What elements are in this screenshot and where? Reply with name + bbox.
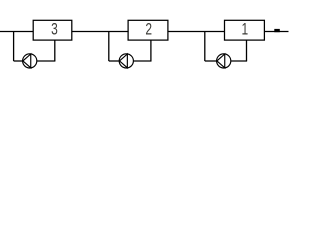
- label 3: [51, 21, 58, 39]
- switch S1: circle with inscribed triangle: [217, 54, 231, 68]
- label 2: [145, 21, 152, 39]
- label 1: [242, 21, 249, 39]
- wire: output line from block 1: [264, 31, 288, 33]
- wire: feedback lower run to switch S1: [205, 60, 217, 62]
- svg-text:3: 3: [51, 21, 58, 39]
- block 1: rectangle: [225, 20, 265, 40]
- wire: link from block 3 to block 2: [72, 31, 129, 33]
- wire: from switch S2 to riser: [133, 60, 151, 62]
- wire: from switch S1 to riser: [231, 60, 247, 62]
- wire: from switch S3 to riser: [37, 60, 56, 62]
- svg-text:1: 1: [242, 21, 249, 39]
- wire: input line from left edge to block 3: [0, 31, 34, 33]
- wire: feedback lower run to switch S3: [14, 60, 23, 62]
- node J2: tap junction before block 2: [108, 32, 110, 62]
- wire: link from block 2 to block 1: [168, 31, 225, 33]
- output terminal: small filled square: [274, 29, 280, 32]
- wire: riser up into bottom of block 2: [150, 40, 152, 61]
- wire: riser up into bottom of block 1: [246, 40, 248, 61]
- node J3: tap junction before block 3: [13, 32, 15, 62]
- block 2: rectangle: [128, 20, 168, 40]
- wire: riser up into bottom of block 3: [54, 40, 56, 61]
- node J1: tap junction before block 1: [204, 32, 206, 62]
- svg-text:2: 2: [145, 21, 152, 39]
- switch S2: circle with inscribed triangle: [119, 54, 133, 68]
- block 3: rectangle: [33, 20, 72, 40]
- wire: feedback lower run to switch S2: [109, 60, 119, 62]
- switch S3: circle with inscribed triangle: [23, 54, 37, 68]
